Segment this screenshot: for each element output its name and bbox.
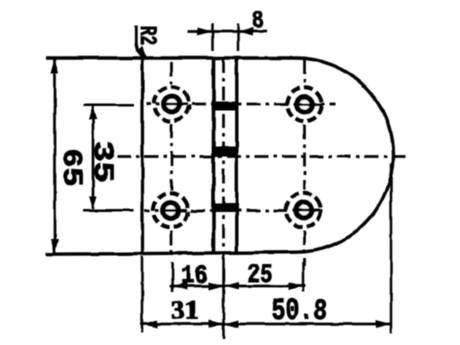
svg-text:65: 65	[55, 149, 86, 187]
svg-text:25: 25	[247, 260, 273, 290]
svg-text:31: 31	[171, 296, 200, 325]
svg-text:35: 35	[86, 141, 117, 183]
svg-text:50.8: 50.8	[272, 294, 328, 329]
svg-text:16: 16	[181, 261, 208, 291]
svg-text:R2: R2	[133, 26, 160, 46]
svg-text:8: 8	[252, 9, 264, 36]
